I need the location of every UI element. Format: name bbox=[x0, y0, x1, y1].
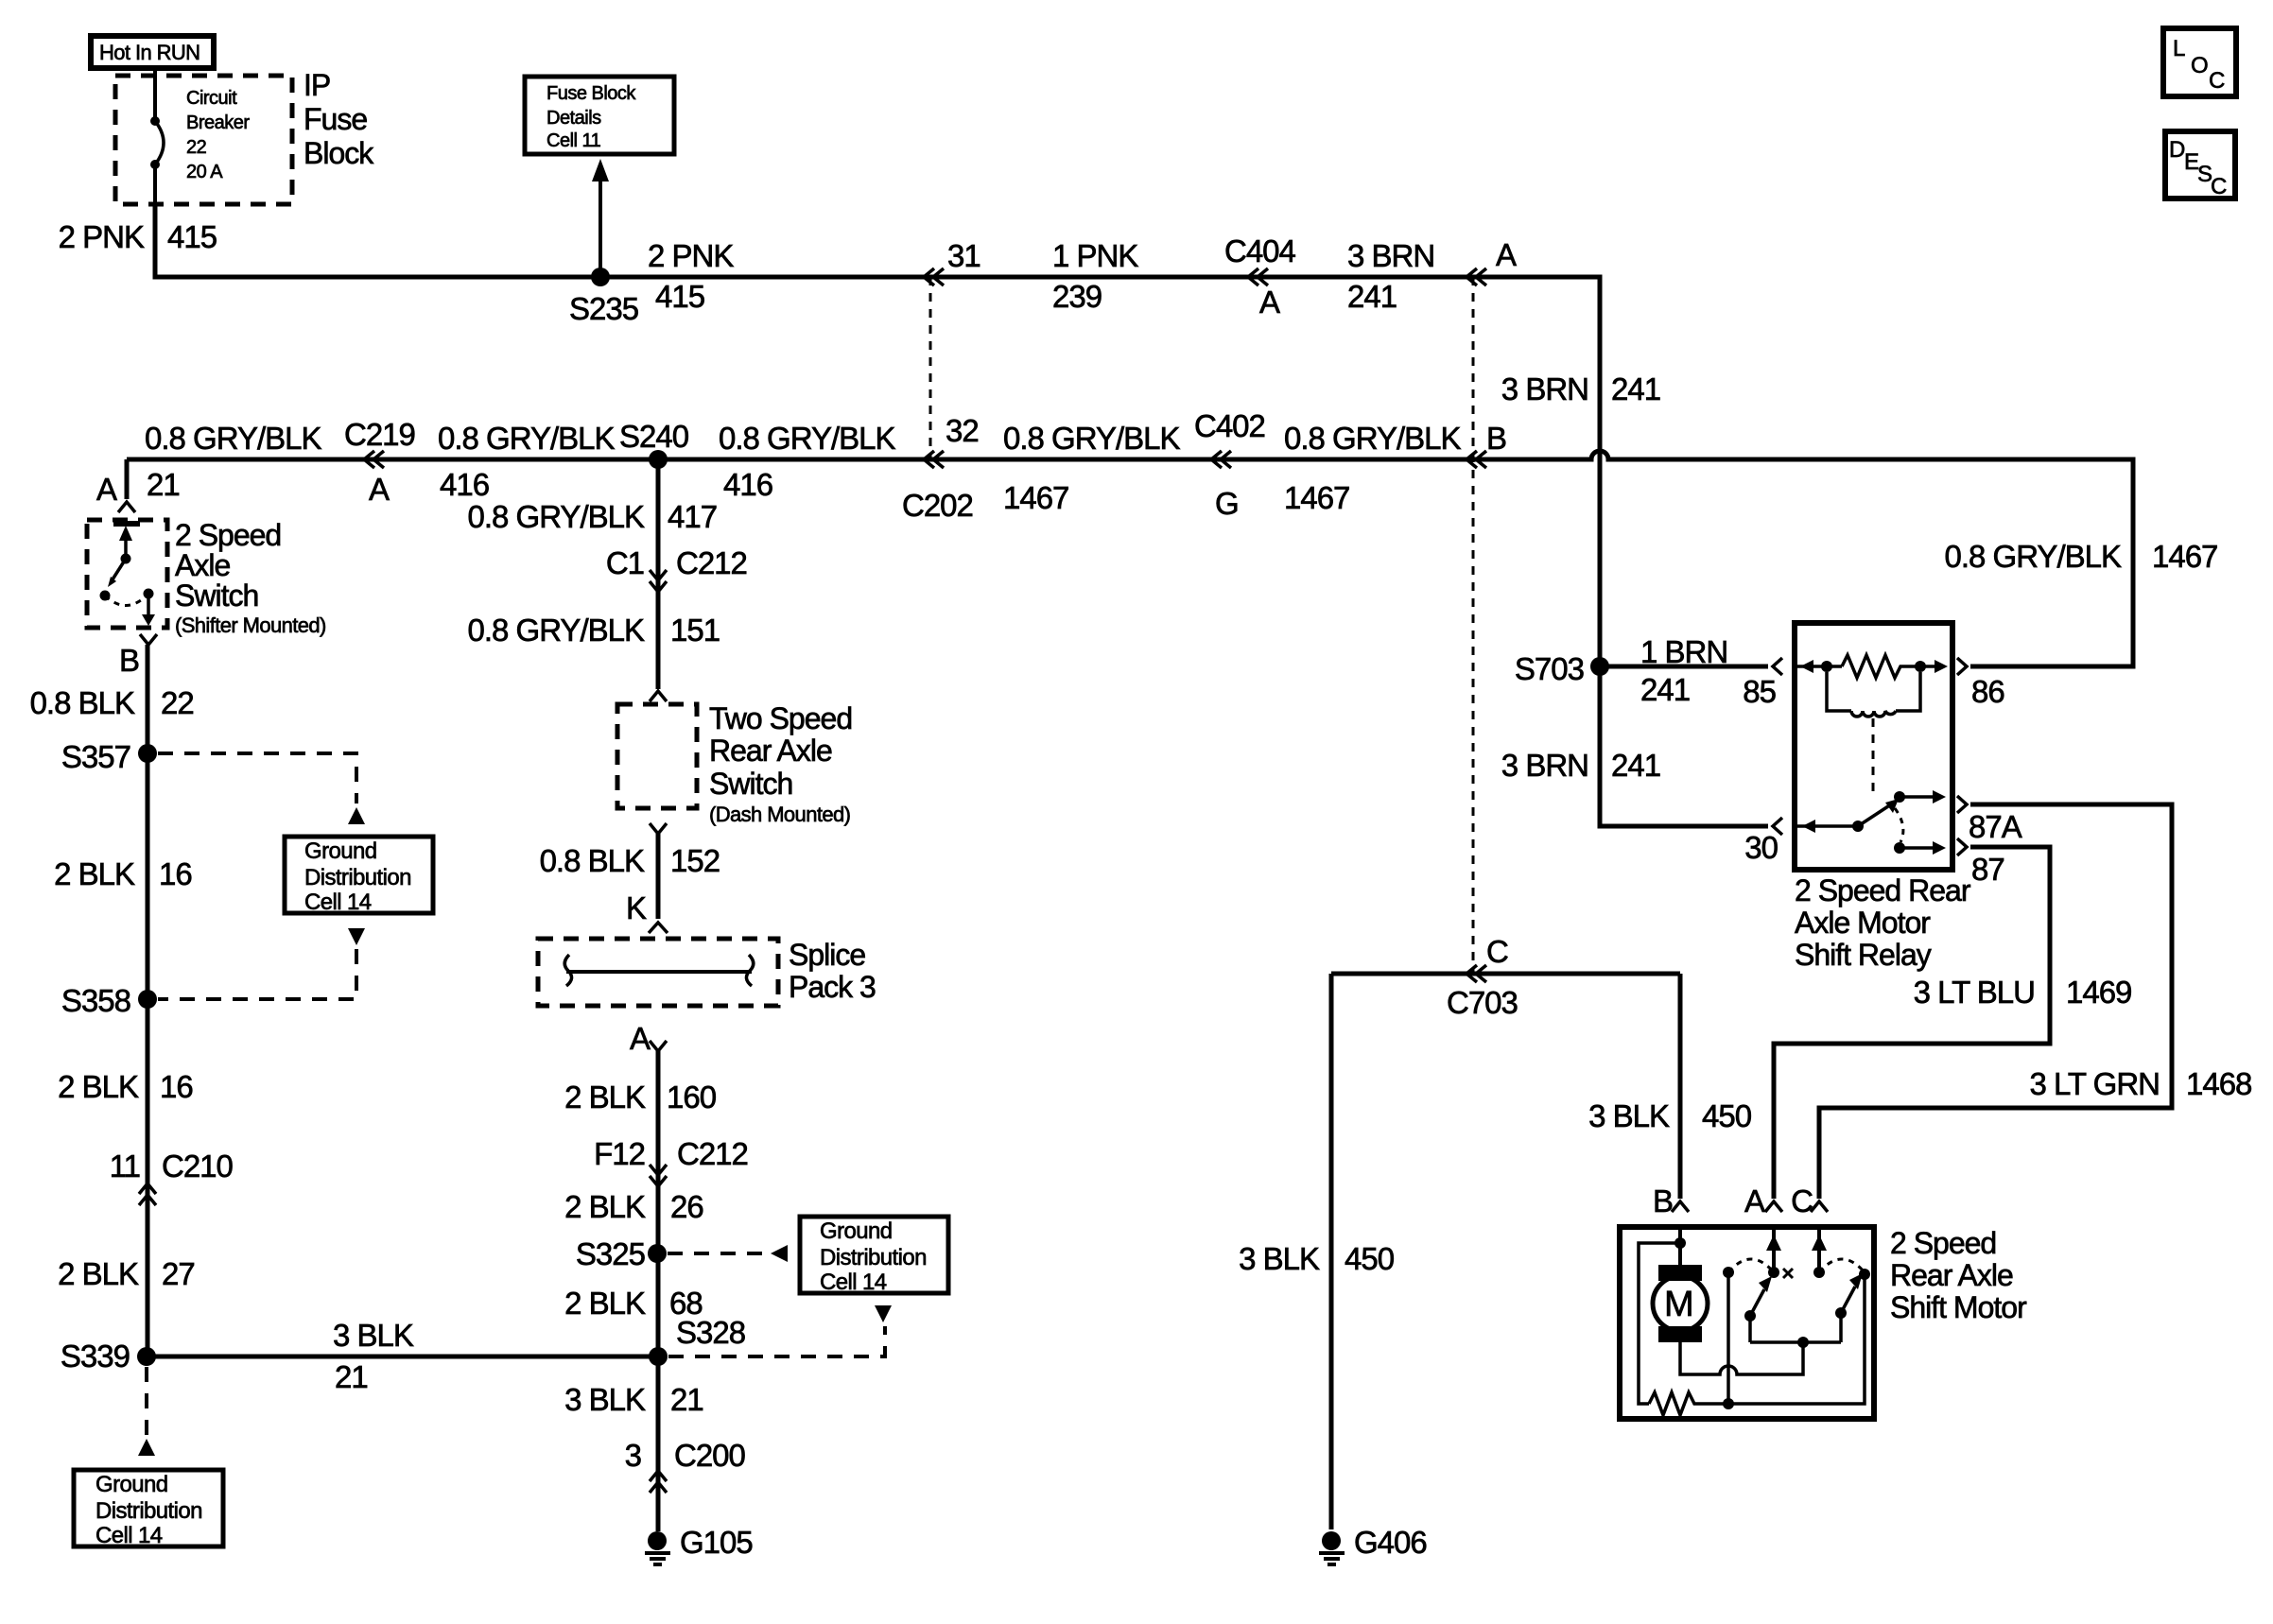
svg-text:A: A bbox=[369, 472, 390, 507]
svg-text:Switch: Switch bbox=[175, 579, 258, 613]
label 1 PNK 239 bbox=[1052, 238, 1138, 314]
svg-text:0.8 GRY/BLK: 0.8 GRY/BLK bbox=[438, 421, 615, 456]
label 0.8 BLK 22 bbox=[30, 685, 194, 720]
reference dash S339 to ground distribution bbox=[138, 1367, 155, 1456]
svg-text:0.8 GRY/BLK: 0.8 GRY/BLK bbox=[467, 613, 644, 648]
wire S703 to relay pin85 bbox=[1600, 665, 1768, 669]
svg-text:21: 21 bbox=[147, 467, 180, 502]
label 2 PNK 415 right of S235 bbox=[648, 238, 734, 314]
ground distribution cell 14 box middle bbox=[800, 1217, 948, 1295]
svg-text:30: 30 bbox=[1744, 830, 1778, 865]
wire 87A to motor pin C bbox=[1819, 804, 2172, 1199]
svg-text:3 BRN: 3 BRN bbox=[1501, 371, 1588, 406]
svg-text:B: B bbox=[1486, 421, 1506, 456]
label 2 Speed Rear Axle Motor Shift Relay bbox=[1795, 873, 1971, 972]
svg-text:A: A bbox=[1496, 237, 1517, 272]
svg-text:0.8 GRY/BLK: 0.8 GRY/BLK bbox=[1944, 539, 2121, 574]
label 0.8 GRY/BLK 416 right of S240 bbox=[719, 421, 895, 502]
svg-text:B: B bbox=[119, 643, 139, 678]
svg-text:241: 241 bbox=[1347, 279, 1397, 314]
connector C219 pin A bbox=[344, 417, 415, 507]
svg-text:32: 32 bbox=[946, 413, 979, 448]
svg-text:Cell 14: Cell 14 bbox=[304, 890, 372, 915]
reference dash S328 to ground distribution bbox=[668, 1305, 892, 1356]
label 0.8 GRY/BLK 1467 bbox=[1003, 421, 1180, 515]
svg-text:G105: G105 bbox=[680, 1525, 753, 1560]
relay resistor row pin85 to pin86 bbox=[1795, 655, 1948, 678]
svg-text:0.8 GRY/BLK: 0.8 GRY/BLK bbox=[1003, 421, 1180, 456]
svg-text:417: 417 bbox=[668, 499, 717, 534]
svg-text:IP: IP bbox=[304, 68, 330, 102]
label 3 BLK 450 left bbox=[1239, 1241, 1395, 1276]
label 3 BRN 241 vertical bbox=[1501, 371, 1660, 406]
svg-text:C: C bbox=[2211, 174, 2227, 199]
svg-text:2 PNK: 2 PNK bbox=[59, 219, 145, 254]
svg-text:450: 450 bbox=[1702, 1098, 1752, 1133]
svg-text:3 LT BLU: 3 LT BLU bbox=[1914, 975, 2035, 1010]
reference dash S357 to ground distribution bbox=[158, 753, 365, 824]
motor left switch arm bbox=[1744, 1276, 1772, 1322]
label 3 LT BLU 1469 bbox=[1914, 975, 2132, 1010]
svg-text:2 BLK: 2 BLK bbox=[564, 1080, 646, 1114]
svg-text:2 Speed: 2 Speed bbox=[175, 518, 281, 552]
connector C402 dashed line bbox=[1472, 277, 1475, 974]
svg-text:O: O bbox=[2191, 53, 2208, 78]
node S339 bbox=[61, 1339, 156, 1373]
svg-text:C1: C1 bbox=[606, 545, 644, 580]
svg-text:3 BLK: 3 BLK bbox=[564, 1382, 646, 1417]
label 0.8 GRY/BLK 1467 second bbox=[1284, 421, 1461, 515]
svg-text:Two Speed: Two Speed bbox=[709, 701, 852, 735]
svg-text:A: A bbox=[1744, 1183, 1765, 1218]
svg-text:85: 85 bbox=[1743, 674, 1776, 709]
label 3 BLK 21 below S328 bbox=[564, 1382, 703, 1417]
svg-text:Splice: Splice bbox=[789, 938, 865, 972]
svg-text:S358: S358 bbox=[61, 983, 130, 1018]
svg-text:B: B bbox=[1653, 1183, 1673, 1218]
svg-text:0.8 BLK: 0.8 BLK bbox=[540, 843, 645, 878]
svg-text:G: G bbox=[1215, 486, 1239, 521]
svg-text:S339: S339 bbox=[61, 1339, 130, 1373]
svg-text:87: 87 bbox=[1971, 852, 2004, 887]
svg-text:Fuse Block: Fuse Block bbox=[547, 83, 636, 104]
node S240 bbox=[619, 419, 689, 469]
wire switch to splice pack bbox=[656, 834, 661, 919]
svg-text:Rear Axle: Rear Axle bbox=[709, 734, 832, 768]
svg-text:F12: F12 bbox=[594, 1136, 645, 1171]
label 3 BLK 450 upper bbox=[1588, 1098, 1752, 1133]
svg-text:3 BLK: 3 BLK bbox=[1239, 1241, 1320, 1276]
svg-text:16: 16 bbox=[159, 856, 192, 891]
svg-text:(Shifter Mounted): (Shifter Mounted) bbox=[175, 613, 326, 637]
label 2 PNK 415 bbox=[59, 219, 217, 254]
label 0.8 BLK 152 bbox=[540, 843, 720, 878]
svg-text:A: A bbox=[630, 1021, 651, 1056]
IP Fuse Block dashed box bbox=[115, 76, 292, 204]
wire splice pack to G105 bbox=[656, 1051, 661, 1531]
svg-text:0.8 GRY/BLK: 0.8 GRY/BLK bbox=[1284, 421, 1461, 456]
svg-text:239: 239 bbox=[1052, 279, 1102, 314]
svg-text:1 PNK: 1 PNK bbox=[1052, 238, 1138, 273]
svg-text:Cell 11: Cell 11 bbox=[547, 130, 601, 151]
svg-text:151: 151 bbox=[670, 613, 720, 648]
label 2 BLK 160 bbox=[564, 1080, 717, 1114]
connector C402 pin B bbox=[1466, 421, 1506, 468]
svg-text:0.8 BLK: 0.8 BLK bbox=[30, 685, 135, 720]
relay pin 87 bbox=[1957, 838, 2004, 887]
connector C202 dashed line bbox=[929, 277, 932, 459]
svg-text:Shift Motor: Shift Motor bbox=[1890, 1290, 2027, 1324]
label 2 BLK 27 bbox=[58, 1256, 195, 1291]
label 3 BLK 21 horizontal bbox=[333, 1318, 414, 1394]
fuse block details cell 11 box bbox=[525, 77, 674, 154]
svg-text:(Dash Mounted): (Dash Mounted) bbox=[709, 803, 850, 826]
svg-text:241: 241 bbox=[1640, 672, 1690, 707]
svg-text:27: 27 bbox=[162, 1256, 195, 1291]
svg-text:1467: 1467 bbox=[2152, 539, 2217, 574]
svg-text:2 BLK: 2 BLK bbox=[564, 1286, 646, 1321]
connector C402 pin G bbox=[1194, 408, 1265, 521]
connector C212 pin C1 bbox=[606, 545, 747, 592]
svg-text:2 BLK: 2 BLK bbox=[54, 856, 135, 891]
motor M1 box bbox=[1620, 1227, 1874, 1419]
svg-text:2 Speed Rear: 2 Speed Rear bbox=[1795, 873, 1971, 907]
connector C210 pin 11 bbox=[110, 1149, 234, 1205]
svg-text:3 BLK: 3 BLK bbox=[1588, 1098, 1670, 1133]
svg-text:Ground: Ground bbox=[304, 838, 376, 864]
ground G105 bbox=[645, 1525, 753, 1564]
node S328 bbox=[649, 1315, 745, 1366]
svg-text:415: 415 bbox=[167, 219, 217, 254]
svg-text:3 LT GRN: 3 LT GRN bbox=[2030, 1066, 2160, 1101]
relay U1 box bbox=[1795, 623, 1952, 870]
svg-text:241: 241 bbox=[1611, 371, 1660, 406]
relay pin 87A bbox=[1957, 796, 2022, 844]
svg-text:S357: S357 bbox=[61, 739, 130, 774]
svg-text:S240: S240 bbox=[619, 419, 689, 454]
motor center contact and vertical bbox=[1723, 1259, 1774, 1404]
node S703 bbox=[1515, 651, 1609, 686]
svg-text:16: 16 bbox=[160, 1069, 193, 1104]
svg-text:Circuit: Circuit bbox=[186, 88, 237, 109]
relay pin 86 bbox=[1957, 658, 2004, 709]
svg-text:Ground: Ground bbox=[820, 1218, 892, 1244]
node S325 bbox=[576, 1236, 667, 1271]
svg-text:31: 31 bbox=[947, 238, 980, 273]
svg-text:Distribution: Distribution bbox=[95, 1498, 202, 1524]
ground G406 bbox=[1319, 1525, 1427, 1564]
motor bottom wire with hop bbox=[1680, 1337, 1809, 1374]
svg-text:C210: C210 bbox=[162, 1149, 234, 1183]
svg-text:11: 11 bbox=[110, 1149, 140, 1183]
2 speed axle switch dashed box bbox=[87, 520, 167, 628]
ground distribution cell 14 box bottom left bbox=[74, 1470, 223, 1548]
label 2 BLK 16 second bbox=[58, 1069, 193, 1104]
pin 31 chevrons bbox=[924, 238, 980, 285]
svg-text:21: 21 bbox=[670, 1382, 703, 1417]
label 3 LT GRN 1468 bbox=[2030, 1066, 2252, 1101]
label 2 BLK 16 bbox=[54, 856, 192, 891]
reference dash S325 to ground distribution bbox=[668, 1245, 788, 1262]
motor contact A with x mark bbox=[1766, 1227, 1793, 1278]
svg-text:2 BLK: 2 BLK bbox=[58, 1069, 139, 1104]
svg-text:1469: 1469 bbox=[2066, 975, 2131, 1010]
ground distribution cell 14 box left bbox=[285, 837, 433, 915]
svg-text:1467: 1467 bbox=[1284, 480, 1349, 515]
svg-text:3 BLK: 3 BLK bbox=[333, 1318, 414, 1353]
svg-text:G406: G406 bbox=[1354, 1525, 1427, 1560]
wire S339 to S328 bbox=[147, 1355, 658, 1359]
connector C703 pin C bbox=[1447, 934, 1518, 1020]
label 2 Speed Axle Switch (Shifter Mounted) bbox=[175, 518, 326, 637]
svg-text:21: 21 bbox=[335, 1359, 368, 1394]
node S235 bbox=[569, 159, 638, 326]
label 3 BRN 241 to pin 30 bbox=[1501, 748, 1660, 783]
wire 87 to motor pin A bbox=[1774, 847, 2050, 1199]
circuit breaker 22 20A bbox=[150, 70, 250, 204]
wire C703 left branch to G406 bbox=[1329, 974, 1334, 1529]
svg-text:C219: C219 bbox=[344, 417, 415, 452]
svg-text:Rear Axle: Rear Axle bbox=[1890, 1258, 2013, 1292]
svg-text:416: 416 bbox=[723, 467, 772, 502]
svg-text:450: 450 bbox=[1345, 1241, 1395, 1276]
svg-text:Ground: Ground bbox=[95, 1472, 167, 1497]
svg-text:415: 415 bbox=[655, 279, 704, 314]
axle switch contacts and arm bbox=[100, 524, 156, 626]
label 0.8 GRY/BLK 417 bbox=[467, 499, 717, 534]
label 0.8 GRY/BLK 416 bbox=[438, 421, 615, 502]
svg-text:A: A bbox=[1259, 285, 1280, 320]
svg-text:Fuse: Fuse bbox=[304, 102, 367, 136]
motor internal pin B wire and junction bbox=[1639, 1227, 1686, 1404]
svg-text:0.8 GRY/BLK: 0.8 GRY/BLK bbox=[719, 421, 895, 456]
svg-text:160: 160 bbox=[667, 1080, 717, 1114]
label 2 BLK 26 bbox=[564, 1189, 703, 1224]
svg-text:2 PNK: 2 PNK bbox=[648, 238, 734, 273]
two speed rear axle switch dashed box bbox=[617, 691, 852, 834]
svg-text:241: 241 bbox=[1611, 748, 1660, 783]
svg-text:Distribution: Distribution bbox=[304, 865, 411, 890]
motor contact C bbox=[1812, 1227, 1865, 1278]
reference dash ground distribution to S358 bbox=[158, 928, 365, 999]
pin A below splice pack bbox=[630, 1021, 667, 1056]
svg-text:Cell 14: Cell 14 bbox=[820, 1270, 887, 1295]
pin A of axle switch bbox=[96, 459, 135, 512]
svg-text:A: A bbox=[96, 472, 117, 507]
svg-text:S325: S325 bbox=[576, 1236, 645, 1271]
svg-text:K: K bbox=[626, 890, 647, 925]
svg-text:0.8 GRY/BLK: 0.8 GRY/BLK bbox=[145, 421, 321, 456]
node Hot In RUN bbox=[91, 36, 214, 68]
svg-text:C: C bbox=[1791, 1183, 1813, 1218]
svg-text:1 BRN: 1 BRN bbox=[1640, 634, 1727, 669]
label IP Fuse Block bbox=[304, 68, 374, 170]
svg-text:C404: C404 bbox=[1224, 233, 1296, 268]
svg-text:Distribution: Distribution bbox=[820, 1245, 927, 1270]
node S357 bbox=[61, 739, 157, 774]
svg-text:C202: C202 bbox=[902, 488, 973, 523]
svg-text:C402: C402 bbox=[1194, 408, 1265, 443]
svg-text:22: 22 bbox=[161, 685, 194, 720]
motor internal bottom bus bbox=[1723, 1269, 1870, 1409]
relay pin 30 chevron bbox=[1744, 818, 1782, 865]
svg-text:M: M bbox=[1664, 1285, 1693, 1324]
svg-text:C200: C200 bbox=[674, 1438, 746, 1473]
svg-text:2 BLK: 2 BLK bbox=[564, 1189, 646, 1224]
svg-text:87A: 87A bbox=[1969, 809, 2022, 844]
wire S240 branch down bbox=[656, 459, 661, 689]
svg-text:Block: Block bbox=[304, 136, 374, 170]
svg-text:1467: 1467 bbox=[1003, 480, 1068, 515]
svg-text:C212: C212 bbox=[676, 545, 747, 580]
svg-text:Breaker: Breaker bbox=[186, 112, 250, 133]
svg-text:S235: S235 bbox=[569, 291, 638, 326]
svg-text:Axle: Axle bbox=[175, 548, 230, 582]
wire axle switch B down to S339 bbox=[146, 645, 150, 1356]
svg-text:26: 26 bbox=[670, 1189, 703, 1224]
wire C703 horizontal bbox=[1331, 972, 1680, 976]
connector C212 pin F12 bbox=[594, 1136, 748, 1186]
wire W1 breaker to right corner and down to relay pin30 bbox=[155, 204, 1768, 826]
motor pin A bbox=[1744, 1183, 1782, 1218]
svg-text:Hot In RUN: Hot In RUN bbox=[99, 41, 200, 64]
wire W2 GRY/BLK main horizontal with hop, to relay pin 86 bbox=[127, 451, 2133, 666]
label 3 BRN 241 bbox=[1347, 238, 1434, 314]
label 0.8 GRY/BLK 151 bbox=[467, 613, 720, 648]
svg-text:0.8 GRY/BLK: 0.8 GRY/BLK bbox=[467, 499, 644, 534]
connector C402 pin A bbox=[1466, 237, 1517, 285]
pin B of axle switch bbox=[119, 634, 157, 678]
svg-text:3 BRN: 3 BRN bbox=[1501, 748, 1588, 783]
relay coil bbox=[1827, 672, 1920, 792]
LOC reference box bbox=[2163, 28, 2236, 96]
svg-text:86: 86 bbox=[1971, 674, 2004, 709]
label 2 BLK 68 bbox=[564, 1286, 703, 1321]
svg-text:Pack 3: Pack 3 bbox=[789, 970, 876, 1004]
svg-text:Cell 14: Cell 14 bbox=[95, 1523, 163, 1548]
svg-text:152: 152 bbox=[670, 843, 720, 878]
svg-text:Details: Details bbox=[547, 108, 601, 129]
svg-text:20 A: 20 A bbox=[186, 162, 223, 182]
svg-text:S328: S328 bbox=[676, 1315, 745, 1350]
svg-text:C: C bbox=[1486, 934, 1508, 969]
svg-text:Shift Relay: Shift Relay bbox=[1795, 938, 1932, 972]
motor internal resistor bbox=[1649, 1392, 1728, 1415]
svg-text:Axle Motor: Axle Motor bbox=[1795, 906, 1931, 940]
DESC reference box bbox=[2165, 131, 2235, 199]
svg-text:3: 3 bbox=[625, 1438, 641, 1473]
label 2 Speed Rear Axle Shift Motor bbox=[1890, 1226, 2027, 1324]
svg-text:C212: C212 bbox=[677, 1136, 748, 1171]
wire C703 right branch to motor pin B bbox=[1678, 974, 1683, 1199]
connector C404 pin A bbox=[1224, 233, 1296, 320]
label 0.8 GRY/BLK 1467 vertical right bbox=[1944, 539, 2217, 574]
relay pin 85 chevron and labels bbox=[1640, 634, 1782, 709]
motor pin B bbox=[1653, 1183, 1689, 1218]
svg-text:22: 22 bbox=[186, 137, 207, 158]
splice pack 3 dashed box with bus bar bbox=[538, 938, 876, 1006]
motor M symbol bbox=[1653, 1265, 1708, 1342]
connector C202 pin 32 bbox=[902, 413, 979, 523]
svg-text:2 Speed: 2 Speed bbox=[1890, 1226, 1996, 1260]
relay switch arm bbox=[1795, 790, 1946, 855]
connector C200 pin 3 bbox=[625, 1438, 746, 1493]
svg-text:S703: S703 bbox=[1515, 651, 1584, 686]
pin K bbox=[626, 890, 668, 933]
svg-text:C703: C703 bbox=[1447, 985, 1518, 1020]
node S358 bbox=[61, 983, 157, 1018]
svg-text:416: 416 bbox=[440, 467, 489, 502]
label 0.8 GRY/BLK 21 bbox=[145, 421, 321, 502]
svg-text:L: L bbox=[2173, 36, 2185, 61]
svg-text:2 BLK: 2 BLK bbox=[58, 1256, 139, 1291]
svg-text:1468: 1468 bbox=[2186, 1066, 2251, 1101]
svg-text:3 BRN: 3 BRN bbox=[1347, 238, 1434, 273]
svg-text:D: D bbox=[2169, 137, 2185, 163]
svg-text:C: C bbox=[2209, 68, 2225, 94]
motor switch common bus bbox=[1750, 1313, 1841, 1342]
motor pin C bbox=[1791, 1183, 1828, 1218]
svg-text:Switch: Switch bbox=[709, 767, 792, 801]
motor right switch arm bbox=[1835, 1273, 1863, 1319]
